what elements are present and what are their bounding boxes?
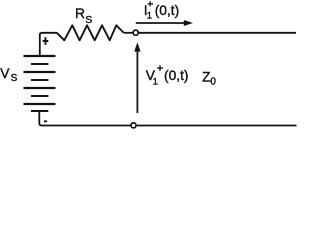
svg-text:1: 1 xyxy=(147,10,152,21)
wire: top transmission line conductor to the right xyxy=(139,32,296,34)
svg-text:0: 0 xyxy=(210,77,216,88)
battery VS plate long 4 xyxy=(24,103,56,105)
label Z0 characteristic impedance xyxy=(202,70,216,88)
svg-text:S: S xyxy=(85,14,92,26)
svg-text:1: 1 xyxy=(153,77,158,88)
resistor RS zigzag xyxy=(57,25,124,40)
svg-text:(0,t): (0,t) xyxy=(155,3,180,18)
node circle: top terminal at z=0 xyxy=(133,30,138,35)
label I1+(0,t) xyxy=(144,1,179,21)
label V1+(0,t) xyxy=(146,65,189,87)
svg-text:Z: Z xyxy=(202,70,210,85)
label RS xyxy=(75,6,92,26)
battery VS plate short 2 xyxy=(31,79,48,81)
svg-text:(0,t): (0,t) xyxy=(164,68,189,83)
label VS xyxy=(0,66,17,84)
wire: resistor to top node circle xyxy=(124,32,133,34)
current arrow I1+(0,t) pointing right xyxy=(136,20,193,26)
battery VS plate short 3 xyxy=(31,95,48,97)
svg-text:V: V xyxy=(0,66,10,81)
wire: bottom transmission line conductor to the right xyxy=(137,125,297,127)
voltage arrow V1+(0,t) pointing up xyxy=(134,42,140,113)
battery VS plate long 2 xyxy=(24,71,56,73)
svg-text:R: R xyxy=(75,6,85,21)
plus mark at battery top xyxy=(43,37,49,44)
battery VS plate long 1 (top, positive) xyxy=(24,55,56,57)
wire: top-left corner from battery positive terminal up and right to resistor xyxy=(40,33,57,56)
node circle: bottom terminal at z=0 xyxy=(131,123,136,128)
svg-text:S: S xyxy=(11,73,18,84)
battery VS plate short 4 (bottom, negative) xyxy=(31,110,48,112)
minus mark at battery bottom xyxy=(44,120,47,122)
battery VS plate short 1 xyxy=(31,63,48,65)
wire: battery negative down and right along bottom conductor xyxy=(39,111,130,126)
battery VS plate long 3 xyxy=(24,87,56,89)
